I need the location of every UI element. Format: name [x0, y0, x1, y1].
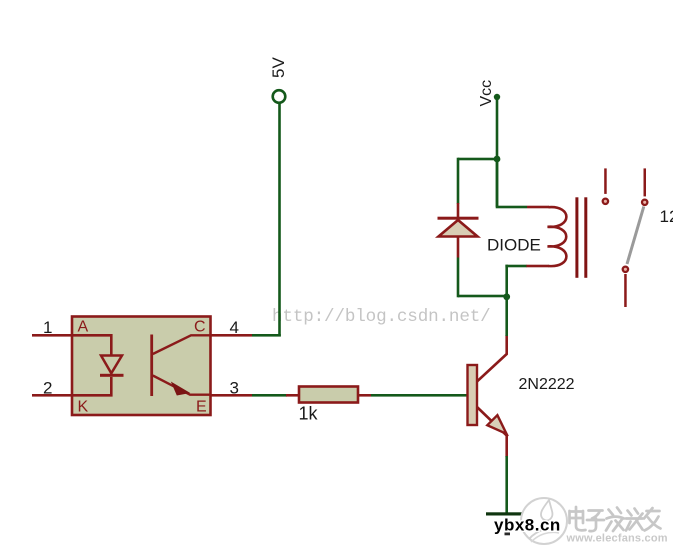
svg-text:E: E [196, 399, 207, 416]
wire diode bottom horizontal to junction [458, 295, 507, 298]
terminal 5V circle [273, 90, 286, 103]
wire 5V to pin4 horizontal [252, 334, 281, 337]
relay core bar left [575, 197, 578, 277]
transistor Q1 base bar [468, 365, 478, 425]
svg-text:4: 4 [230, 318, 239, 337]
transistor Q1 collector line [477, 335, 507, 382]
relay coil bottom pin [526, 265, 549, 268]
wire emitter to ground [505, 456, 508, 513]
pin 2 wire [32, 394, 72, 397]
pin 1 wire [32, 334, 72, 337]
svg-text:2N2222: 2N2222 [519, 376, 575, 393]
svg-text:Vcc: Vcc [478, 80, 495, 107]
diode D1 bottom pin [457, 237, 460, 258]
relay coil loops [548, 207, 567, 266]
opto-coupler U1 body [72, 317, 211, 416]
opto LED cathode bar [100, 374, 124, 377]
resistor R1 body [299, 387, 358, 403]
svg-text:5V: 5V [269, 57, 288, 78]
junction dot Vcc node [494, 156, 501, 163]
opto LED triangle [101, 356, 122, 374]
relay common contact circle [623, 267, 628, 272]
svg-text:A: A [78, 319, 89, 336]
wire resistor to transistor base [371, 394, 468, 397]
wire coil bottom horizontal green [505, 265, 526, 268]
ground bar [486, 512, 528, 515]
transistor Q1 emitter arrow [487, 415, 506, 434]
svg-text:ybx8.cn: ybx8.cn [494, 516, 561, 535]
diode D1 cathode bar [438, 217, 479, 220]
relay common wire [624, 274, 627, 307]
diode D1 top pin [457, 203, 460, 217]
pin 4 wire [211, 334, 253, 337]
wire coil bottom vertical green [505, 265, 508, 297]
svg-text:1k: 1k [299, 404, 319, 424]
opto transistor emitter arrow [173, 383, 189, 394]
watermark elecfans chinese characters [570, 507, 661, 531]
transistor Q1 emitter line [477, 407, 507, 457]
wire Vcc vertical [496, 97, 499, 207]
ground tick [505, 533, 511, 536]
wire diode branch vertical upper [457, 158, 460, 204]
resistor R1 right pin [358, 394, 371, 397]
relay core bar right [584, 197, 587, 277]
wire Vcc down to coil corner [496, 159, 499, 206]
svg-text:http://blog.csdn.net/: http://blog.csdn.net/ [272, 307, 491, 327]
relay coil top pin [527, 206, 549, 209]
svg-text:www.elecfans.com: www.elecfans.com [566, 533, 668, 545]
svg-text:C: C [194, 319, 206, 336]
relay contact terminal right wire [644, 168, 647, 196]
svg-text:1: 1 [43, 318, 52, 337]
svg-text:2: 2 [43, 379, 52, 398]
opto transistor emitter line [153, 376, 211, 395]
wire Vcc to diode branch horizontal [458, 158, 497, 161]
opto transistor collector line [153, 335, 211, 354]
junction dot collector node [503, 293, 510, 300]
wire 5V vertical [278, 104, 281, 337]
wire coil top horizontal green [496, 206, 527, 209]
wire opto pin3 to resistor [252, 394, 287, 397]
diode D1 triangle [439, 220, 478, 237]
opto LED cathode wire [72, 377, 111, 395]
relay contact terminal left circle [603, 199, 608, 204]
relay contact terminal right circle [642, 200, 647, 205]
relay switch arm [627, 207, 644, 265]
wire collector to junction [505, 296, 508, 336]
wire diode branch vertical lower [457, 258, 460, 298]
relay contact terminal left wire [604, 168, 607, 194]
svg-text:DIODE: DIODE [487, 236, 541, 255]
Vcc terminal dot [494, 94, 500, 100]
svg-text:3: 3 [230, 379, 239, 398]
svg-text:K: K [78, 399, 89, 416]
watermark elecfans logo circle [521, 498, 567, 544]
svg-text:12: 12 [660, 207, 673, 226]
resistor R1 left pin [286, 394, 299, 397]
opto LED anode wire [72, 335, 111, 356]
pin 3 wire [211, 394, 253, 397]
opto phototransistor bar [150, 335, 153, 397]
